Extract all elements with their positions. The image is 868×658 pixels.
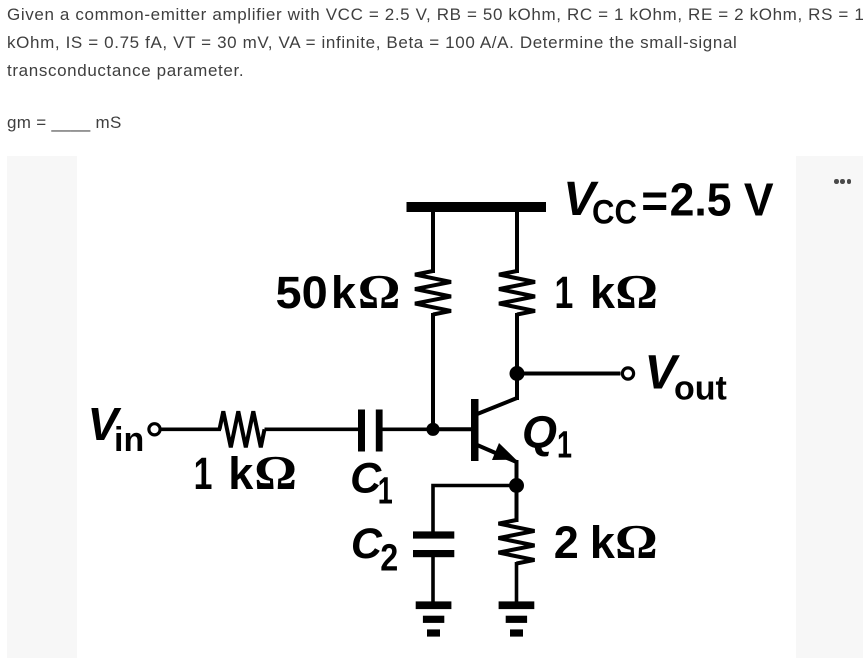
value label 2 kOhm <box>554 515 658 570</box>
resistor RC 1 kOhm zigzag <box>499 271 535 315</box>
emitter node junction dot <box>509 478 524 493</box>
svg-text:k: k <box>590 267 616 318</box>
svg-text:1: 1 <box>378 470 393 512</box>
svg-text:Ω: Ω <box>615 515 658 570</box>
svg-text:out: out <box>674 370 727 408</box>
circuit image white area <box>77 156 796 658</box>
Q1 emitter lead diagonal <box>476 445 517 463</box>
Q1 emitter arrowhead <box>492 443 516 460</box>
resistor RS 1 kOhm source horizontal zigzag <box>220 411 265 447</box>
Vout label <box>645 347 727 408</box>
capacitor C2 plates <box>413 531 454 557</box>
Vin label <box>88 398 145 459</box>
resistor RB 50 kOhm zigzag <box>415 271 451 315</box>
svg-text:Ω: Ω <box>254 446 297 501</box>
svg-text:=: = <box>641 175 668 227</box>
svg-text:Q: Q <box>522 407 557 458</box>
card background <box>7 156 863 658</box>
wire emitter node to RE <box>515 486 519 523</box>
Q1 emitter lead vertical <box>515 460 519 486</box>
Vout open terminal circle <box>622 368 633 379</box>
svg-text:2: 2 <box>554 517 579 568</box>
svg-text:1: 1 <box>557 425 572 467</box>
transistor Q1 base bar <box>471 399 479 461</box>
wire C2 to ground <box>431 557 435 602</box>
svg-text:Ω: Ω <box>615 265 658 320</box>
svg-text:1: 1 <box>555 267 574 318</box>
wire base node to transistor base <box>433 427 471 431</box>
wire C1 to base node <box>383 427 434 431</box>
svg-text:k: k <box>590 517 616 568</box>
C2 label <box>351 520 398 580</box>
answer blank <box>7 109 122 137</box>
net label VCC = 2.5 V <box>563 173 774 232</box>
wire VCC bar to RB top <box>431 210 435 273</box>
svg-text:2.5 V: 2.5 V <box>670 174 774 226</box>
value label 1 kOhm (collector) <box>555 265 658 320</box>
Q1 collector lead vertical <box>515 374 519 401</box>
wire collector node to Vout terminal <box>517 372 621 376</box>
Vin open terminal circle <box>149 424 160 435</box>
Q1 collector lead diagonal <box>476 398 517 415</box>
svg-text:in: in <box>114 421 144 459</box>
svg-text:Ω: Ω <box>358 265 401 320</box>
wire RC bottom to collector node <box>515 313 519 374</box>
question text <box>7 1 868 85</box>
wire RS to C1 <box>265 427 359 431</box>
wire Vin terminal to RS <box>161 427 221 431</box>
capacitor C1 plates <box>358 410 383 452</box>
svg-text:1: 1 <box>194 448 213 499</box>
ground symbol under RE <box>499 601 535 636</box>
collector node junction dot <box>510 366 525 381</box>
VCC supply rail bar <box>407 202 547 212</box>
svg-text:50: 50 <box>276 267 328 318</box>
wire VCC bar to RC top <box>515 210 519 273</box>
Q1 label <box>522 407 572 467</box>
svg-text:C: C <box>351 520 383 568</box>
value label 1 kOhm (source) <box>194 446 297 501</box>
base node junction dot <box>426 423 439 436</box>
ground symbol under C2 <box>416 601 452 636</box>
menu dots icon <box>0 0 868 1</box>
resistor RE 2 kOhm zigzag <box>499 520 535 564</box>
wire RE to ground <box>515 562 519 602</box>
svg-text:k: k <box>331 267 357 318</box>
value label 50 kOhm <box>276 265 401 320</box>
C1 label <box>350 455 393 513</box>
wire RB bottom to base node <box>431 313 435 430</box>
wire emitter node to C2 <box>433 486 517 532</box>
svg-text:2: 2 <box>380 538 398 580</box>
svg-text:k: k <box>228 448 254 499</box>
svg-text:CC: CC <box>592 194 637 232</box>
